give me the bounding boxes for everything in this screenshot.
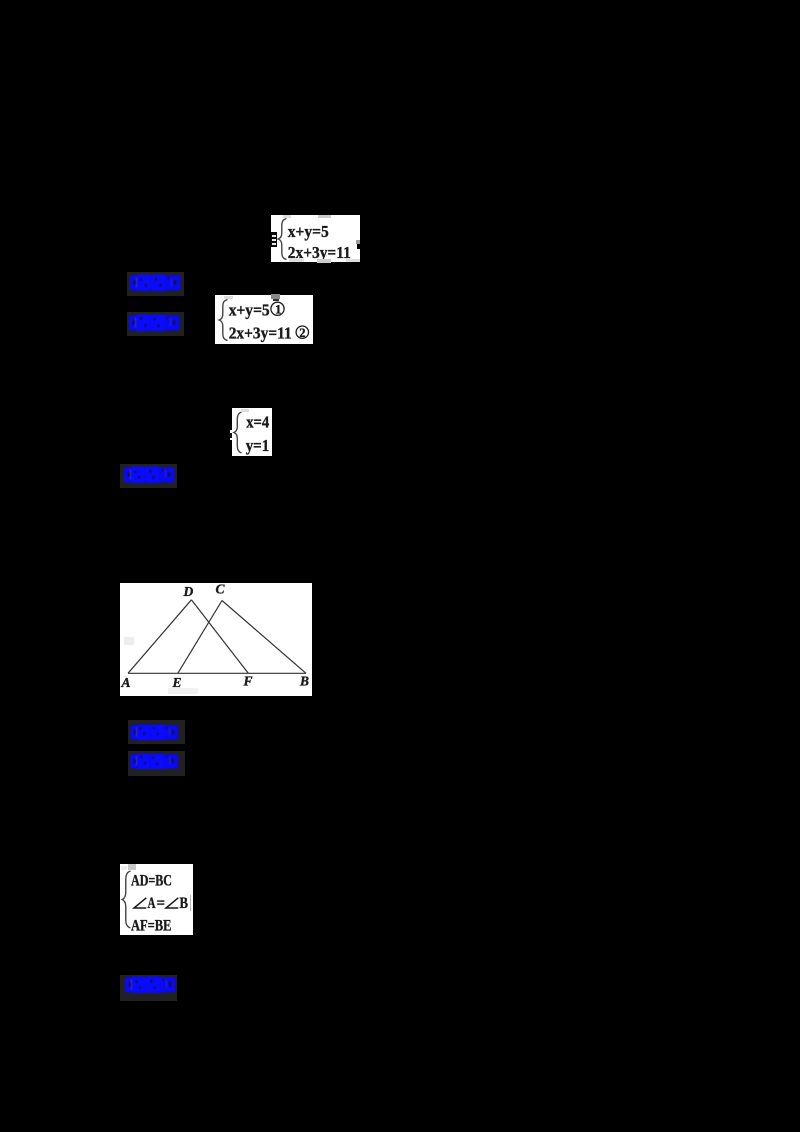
side DF xyxy=(191,600,248,674)
blue label 5 (solution) text blob xyxy=(129,753,179,775)
base line AB xyxy=(128,672,306,674)
svg-text:B: B xyxy=(180,895,189,912)
artifact: faint line right edge of box 4 xyxy=(190,895,191,911)
svg-text:2: 2 xyxy=(299,326,305,340)
artifact: smudge top of box 3 xyxy=(241,409,249,412)
blue label 1 (analysis) text blob xyxy=(129,274,181,297)
equation box 3: system x=4 / y=1 xyxy=(232,408,272,456)
svg-text:E: E xyxy=(172,675,182,690)
geometry figure: triangles ADF and BCE on base AB xyxy=(120,583,312,696)
blue label 6 (comment) backing xyxy=(120,975,177,1001)
svg-text:A: A xyxy=(148,895,157,912)
svg-text:AF=BE: AF=BE xyxy=(131,917,172,934)
svg-text:=: = xyxy=(157,895,166,912)
blue label 5 (solution) backing xyxy=(128,751,185,776)
artifact: smudge top of box 4 xyxy=(128,864,136,870)
side AD xyxy=(128,600,191,674)
artifact: dark glyph fragment left of box 1 xyxy=(271,232,277,247)
svg-text:F: F xyxy=(243,674,253,689)
equation box 4: system AD=BC / angleA=angleB / AF=BE xyxy=(120,864,193,935)
svg-text:x+y=5: x+y=5 xyxy=(229,301,270,320)
blue label 1 (analysis) backing xyxy=(127,272,184,296)
artifact: gray square right of box 1 xyxy=(356,240,360,245)
svg-text:y=1: y=1 xyxy=(246,436,270,455)
blue label 4 (analysis) text blob xyxy=(129,724,179,746)
angle symbol 1 xyxy=(134,898,146,908)
side EC xyxy=(178,601,222,674)
blue label 2 (solution) backing xyxy=(127,312,184,336)
svg-text:D: D xyxy=(183,584,194,599)
equation box 2: system x+y=5 (1) / 2x+3y=11 (2) xyxy=(215,295,313,344)
svg-text:AD=BC: AD=BC xyxy=(131,873,172,890)
blue label 3 (comment) text blob xyxy=(123,466,175,489)
artifact: black period square right of box 1 xyxy=(357,244,362,249)
svg-text:1: 1 xyxy=(275,302,282,317)
blue label 4 (analysis) backing xyxy=(128,720,185,744)
svg-text:x=4: x=4 xyxy=(246,412,269,431)
svg-text:x+y=5: x+y=5 xyxy=(288,222,329,241)
svg-text:2x+3y=11: 2x+3y=11 xyxy=(229,323,292,342)
angle symbol 2 xyxy=(166,898,178,908)
side CB xyxy=(222,601,306,674)
blue label 2 (solution) text blob xyxy=(128,314,180,337)
svg-text:C: C xyxy=(216,583,226,597)
blue label 3 (comment) backing xyxy=(120,464,177,488)
artifact: white nub left of box 3 xyxy=(230,430,233,440)
svg-text:B: B xyxy=(299,674,309,689)
equation box 1: system x+y=5 / 2x+3y=11 xyxy=(271,215,360,262)
smudges xyxy=(124,637,134,645)
artifact: edge smudges box 1 xyxy=(283,215,291,218)
blue label 6 (comment) text blob xyxy=(124,976,176,999)
svg-text:A: A xyxy=(121,675,131,690)
artifact: gray tab above box 2 xyxy=(271,294,280,299)
